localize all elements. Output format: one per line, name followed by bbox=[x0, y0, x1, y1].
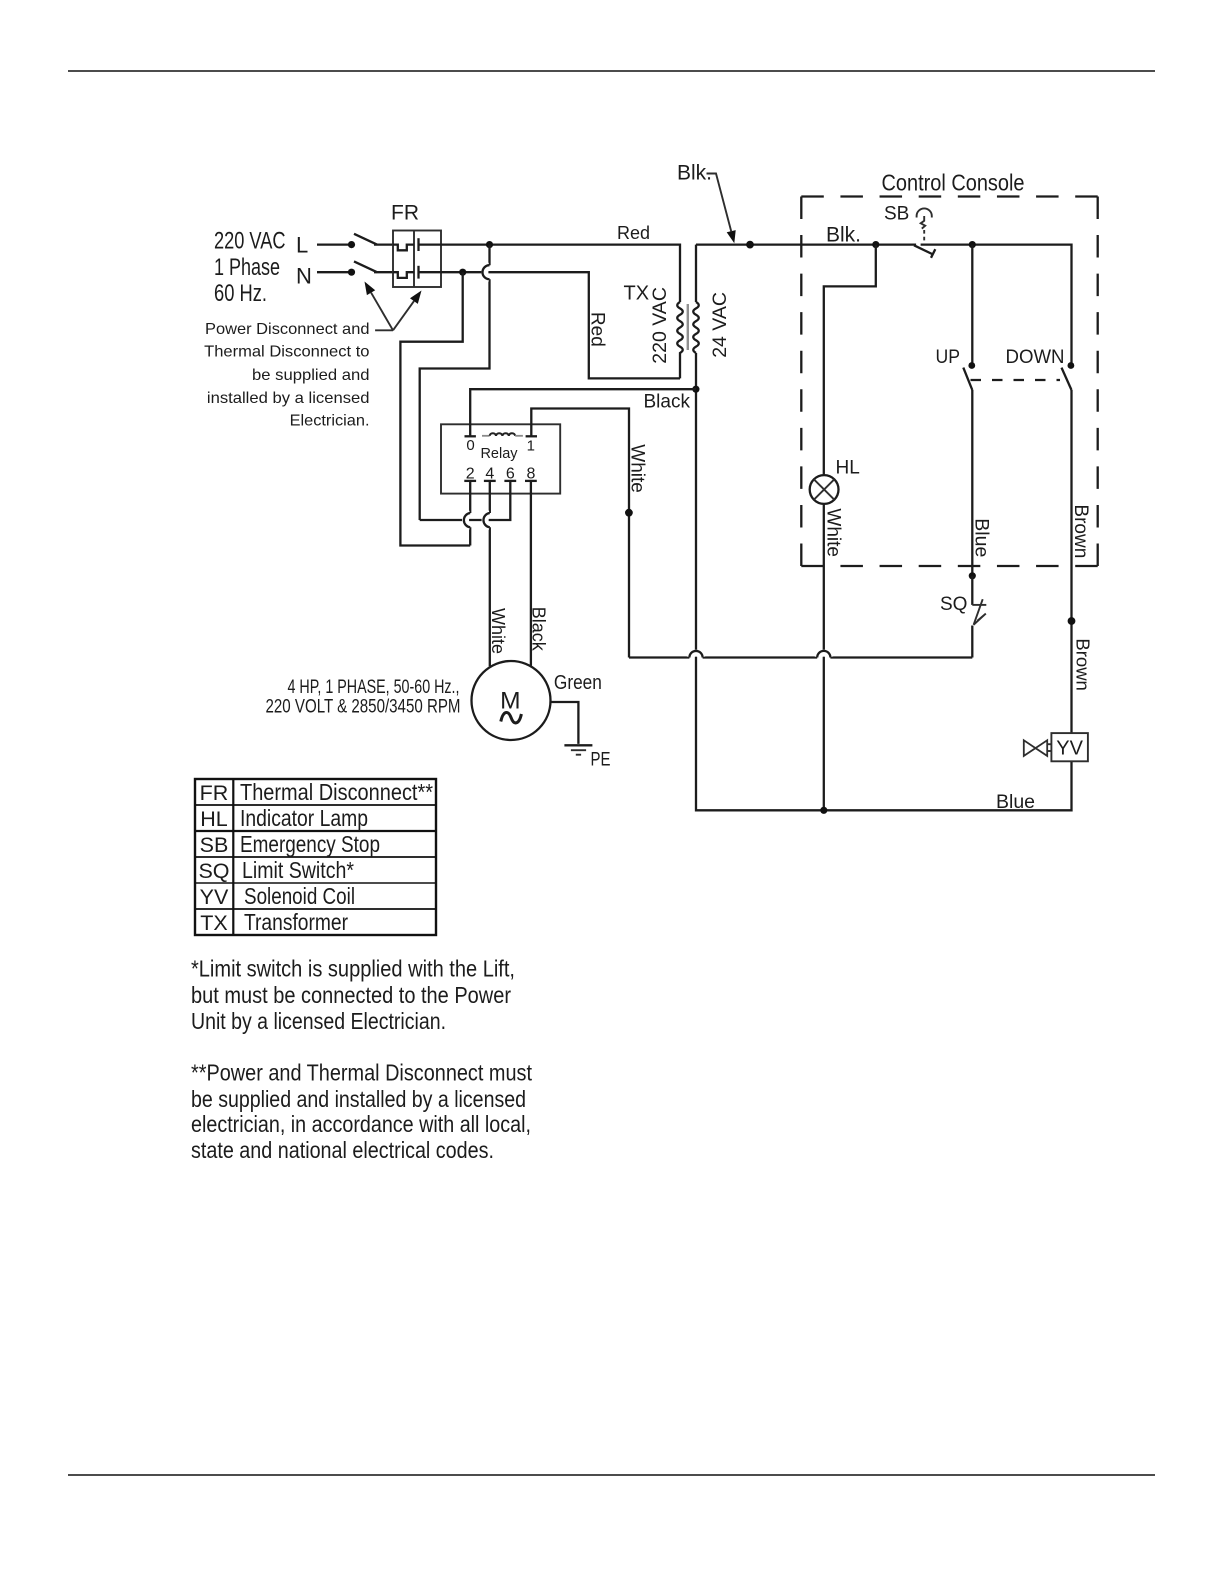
svg-text:be supplied and installed by a: be supplied and installed by a licensed bbox=[191, 1086, 526, 1112]
svg-text:Red: Red bbox=[587, 312, 608, 347]
indicator lamp HL bbox=[810, 475, 839, 504]
svg-text:White: White bbox=[627, 444, 648, 493]
svg-text:L: L bbox=[296, 233, 308, 258]
svg-text:220 VAC: 220 VAC bbox=[649, 287, 671, 364]
node junction lamp wire to blue bus bbox=[820, 807, 827, 814]
wire UP switch to SQ bbox=[971, 390, 973, 576]
svg-text:FR: FR bbox=[200, 781, 229, 805]
FR thermal element bottom bbox=[393, 272, 414, 278]
svg-text:SQ: SQ bbox=[198, 859, 229, 883]
node N contact dot bbox=[348, 269, 355, 276]
pin 4 terminal bbox=[484, 466, 496, 483]
relay box bbox=[441, 424, 560, 493]
wire pin1 up over to white drop bbox=[531, 409, 629, 658]
svg-text:PE: PE bbox=[591, 749, 611, 770]
wire hop pin4 over pin6 feed bbox=[485, 513, 490, 527]
svg-text:Green: Green bbox=[554, 672, 602, 694]
footnote limit switch bbox=[191, 955, 515, 1034]
svg-text:Blue: Blue bbox=[970, 518, 992, 557]
svg-text:Relay: Relay bbox=[480, 446, 518, 462]
svg-text:Limit Switch*: Limit Switch* bbox=[242, 857, 354, 883]
wire pin0 up to secondary junction bbox=[470, 389, 696, 436]
node junction HL branch bbox=[872, 241, 879, 248]
node junction UP branch bbox=[969, 241, 976, 248]
svg-text:Brown: Brown bbox=[1070, 504, 1091, 558]
solenoid valve YV bbox=[1024, 733, 1088, 761]
wire hop over secondary drop bbox=[690, 653, 702, 657]
wire N branch down to relay pin2 bbox=[400, 272, 470, 545]
svg-text:1: 1 bbox=[527, 438, 535, 455]
node DOWN contact dot bbox=[1068, 362, 1075, 369]
svg-text:Blk.: Blk. bbox=[826, 224, 861, 247]
svg-text:Indicator Lamp: Indicator Lamp bbox=[240, 805, 368, 831]
wire HL branch bbox=[824, 245, 876, 476]
svg-text:HL: HL bbox=[200, 807, 228, 831]
svg-text:YV: YV bbox=[1056, 738, 1083, 760]
svg-text:YV: YV bbox=[200, 885, 229, 909]
wire L branch down to relay pin6 bbox=[420, 245, 490, 520]
svg-text:TX: TX bbox=[200, 911, 227, 935]
footnote power disconnect bbox=[191, 1059, 533, 1163]
pin 2 terminal bbox=[464, 466, 476, 483]
svg-text:electrician, in accordance wit: electrician, in accordance with all loca… bbox=[191, 1111, 531, 1137]
wire N blade to FR bbox=[374, 271, 394, 273]
wire hop pin2 over pin6 feed bbox=[466, 513, 471, 527]
leader line from note bbox=[375, 329, 393, 331]
wire top red FR to transformer primary bbox=[441, 245, 680, 302]
svg-text:FR: FR bbox=[391, 202, 419, 225]
FR contact bottom bbox=[419, 266, 442, 279]
svg-text:Black: Black bbox=[529, 607, 549, 652]
pin 8 terminal bbox=[525, 466, 537, 483]
svg-text:SQ: SQ bbox=[940, 594, 967, 615]
svg-text:DOWN: DOWN bbox=[1006, 347, 1065, 368]
transformer TX primary winding bbox=[677, 302, 683, 378]
arrow to FR box bbox=[393, 291, 422, 331]
svg-text:4 HP, 1 PHASE, 50-60 Hz.,: 4 HP, 1 PHASE, 50-60 Hz., bbox=[288, 677, 460, 698]
wire pin8 drop to motor bbox=[530, 481, 532, 666]
node junction secondary-relay bbox=[692, 386, 699, 393]
switch blade L (power disconnect) bbox=[354, 234, 377, 245]
mechanical link UP-DOWN dashed bbox=[971, 379, 1061, 381]
node L contact dot bbox=[348, 241, 355, 248]
note power disconnect to be supplied text bbox=[204, 321, 370, 429]
svg-text:SB: SB bbox=[200, 833, 229, 857]
svg-text:0: 0 bbox=[466, 437, 474, 454]
wire white horizontal to SQ bbox=[629, 656, 972, 658]
wire DOWN switch to YV (brown) bbox=[1070, 390, 1072, 733]
svg-text:Solenoid Coil: Solenoid Coil bbox=[244, 883, 355, 909]
svg-text:but must be connected to the P: but must be connected to the Power bbox=[191, 982, 511, 1008]
wire pin4 drop with hop bbox=[489, 481, 491, 666]
wire secondary top to control console bbox=[696, 243, 916, 245]
bottom rule bbox=[68, 1474, 1155, 1476]
svg-text:Electrician.: Electrician. bbox=[290, 412, 370, 429]
wire L blade to FR bbox=[374, 243, 394, 245]
node UP contact dot bbox=[968, 362, 975, 369]
svg-text:Unit by a licensed Electrician: Unit by a licensed Electrician. bbox=[191, 1008, 446, 1034]
svg-text:Transformer: Transformer bbox=[244, 909, 348, 935]
svg-text:Black: Black bbox=[644, 392, 691, 413]
svg-text:Power Disconnect and: Power Disconnect and bbox=[205, 321, 370, 338]
FR thermal element top bbox=[393, 245, 414, 251]
emergency stop SB symbol bbox=[884, 204, 932, 244]
svg-text:White: White bbox=[823, 508, 844, 557]
FR contact top bbox=[419, 238, 442, 251]
svg-text:Blue: Blue bbox=[996, 791, 1035, 813]
svg-text:1 Phase: 1 Phase bbox=[214, 254, 280, 281]
motor M1 bbox=[472, 661, 551, 740]
wire N lead-in bbox=[317, 271, 352, 273]
svg-text:installed by a licensed: installed by a licensed bbox=[207, 390, 370, 407]
svg-text:TX: TX bbox=[624, 283, 650, 305]
svg-text:**Power and Thermal Disconnect: **Power and Thermal Disconnect must bbox=[191, 1059, 533, 1085]
ground PE bbox=[564, 745, 592, 754]
node junction N branch bbox=[459, 269, 466, 276]
node junction L branch bbox=[486, 241, 493, 248]
pin 0 terminal bbox=[465, 436, 476, 454]
svg-text:be supplied and: be supplied and bbox=[252, 367, 370, 384]
label motor rating bbox=[266, 677, 461, 718]
wire L lead-in bbox=[317, 243, 352, 245]
thermal disconnect FR box bbox=[393, 231, 441, 288]
node splice dot white bbox=[625, 509, 633, 517]
svg-text:220 VAC: 220 VAC bbox=[214, 228, 286, 255]
svg-text:M: M bbox=[500, 688, 520, 715]
svg-text:White: White bbox=[488, 608, 508, 654]
svg-text:Thermal Disconnect**: Thermal Disconnect** bbox=[240, 779, 433, 805]
wire hop over lamp drop bbox=[818, 653, 830, 657]
label 220 VAC 1 Phase 60 Hz source bbox=[214, 228, 286, 308]
arrow to N switch bbox=[365, 282, 394, 331]
node splice dot blk bbox=[746, 241, 754, 249]
wire HL lamp to blue bus bbox=[823, 504, 825, 810]
pin 1 terminal bbox=[526, 436, 537, 454]
label Blk. with arrow (top) bbox=[677, 162, 736, 244]
wire SB right to DOWN branch corner bbox=[921, 245, 1072, 366]
legend table bbox=[195, 779, 436, 935]
wire hop L branch over N wire bbox=[485, 266, 490, 279]
node splice dot brown bbox=[1068, 617, 1076, 625]
control console dashed border bbox=[801, 197, 1097, 567]
svg-text:N: N bbox=[296, 264, 312, 289]
pin 6 terminal bbox=[504, 466, 516, 483]
svg-text:24 VAC: 24 VAC bbox=[709, 292, 731, 358]
wire N from FR to primary loop bbox=[441, 272, 680, 378]
switch blade DOWN bbox=[1062, 368, 1072, 390]
node junction SQ top bbox=[969, 572, 976, 579]
relay coil bbox=[482, 433, 523, 435]
transformer core bbox=[687, 304, 689, 350]
svg-text:state and national electrical: state and national electrical codes. bbox=[191, 1137, 494, 1163]
switch blade UP bbox=[963, 368, 972, 390]
svg-text:220 VOLT & 2850/3450 RPM: 220 VOLT & 2850/3450 RPM bbox=[266, 697, 461, 718]
svg-text:Brown: Brown bbox=[1073, 638, 1094, 690]
svg-text:60 Hz.: 60 Hz. bbox=[214, 280, 267, 307]
switch blade SB bbox=[914, 245, 935, 257]
svg-text:SB: SB bbox=[884, 204, 909, 225]
wire UP branch vertical bbox=[971, 245, 973, 366]
svg-text:Emergency Stop: Emergency Stop bbox=[240, 831, 380, 857]
wire pin6 drop and feed bbox=[420, 481, 511, 520]
wire SQ bottom bbox=[971, 626, 973, 658]
transformer TX secondary winding bbox=[695, 245, 697, 302]
limit switch SQ bbox=[940, 576, 986, 625]
svg-text:Thermal Disconnect to: Thermal Disconnect to bbox=[204, 344, 370, 361]
svg-text:Control Console: Control Console bbox=[882, 169, 1025, 195]
svg-text:HL: HL bbox=[836, 457, 860, 478]
svg-text:*Limit switch is supplied with: *Limit switch is supplied with the Lift, bbox=[191, 955, 515, 981]
wire green to ground bbox=[551, 702, 579, 744]
wire secondary bottom down to blue bus bbox=[696, 389, 1072, 810]
top rule bbox=[68, 70, 1155, 72]
svg-text:Red: Red bbox=[617, 223, 650, 243]
svg-text:UP: UP bbox=[936, 347, 961, 368]
switch blade N (power disconnect) bbox=[354, 261, 377, 272]
wire pin2 drop with hop bbox=[469, 481, 471, 546]
